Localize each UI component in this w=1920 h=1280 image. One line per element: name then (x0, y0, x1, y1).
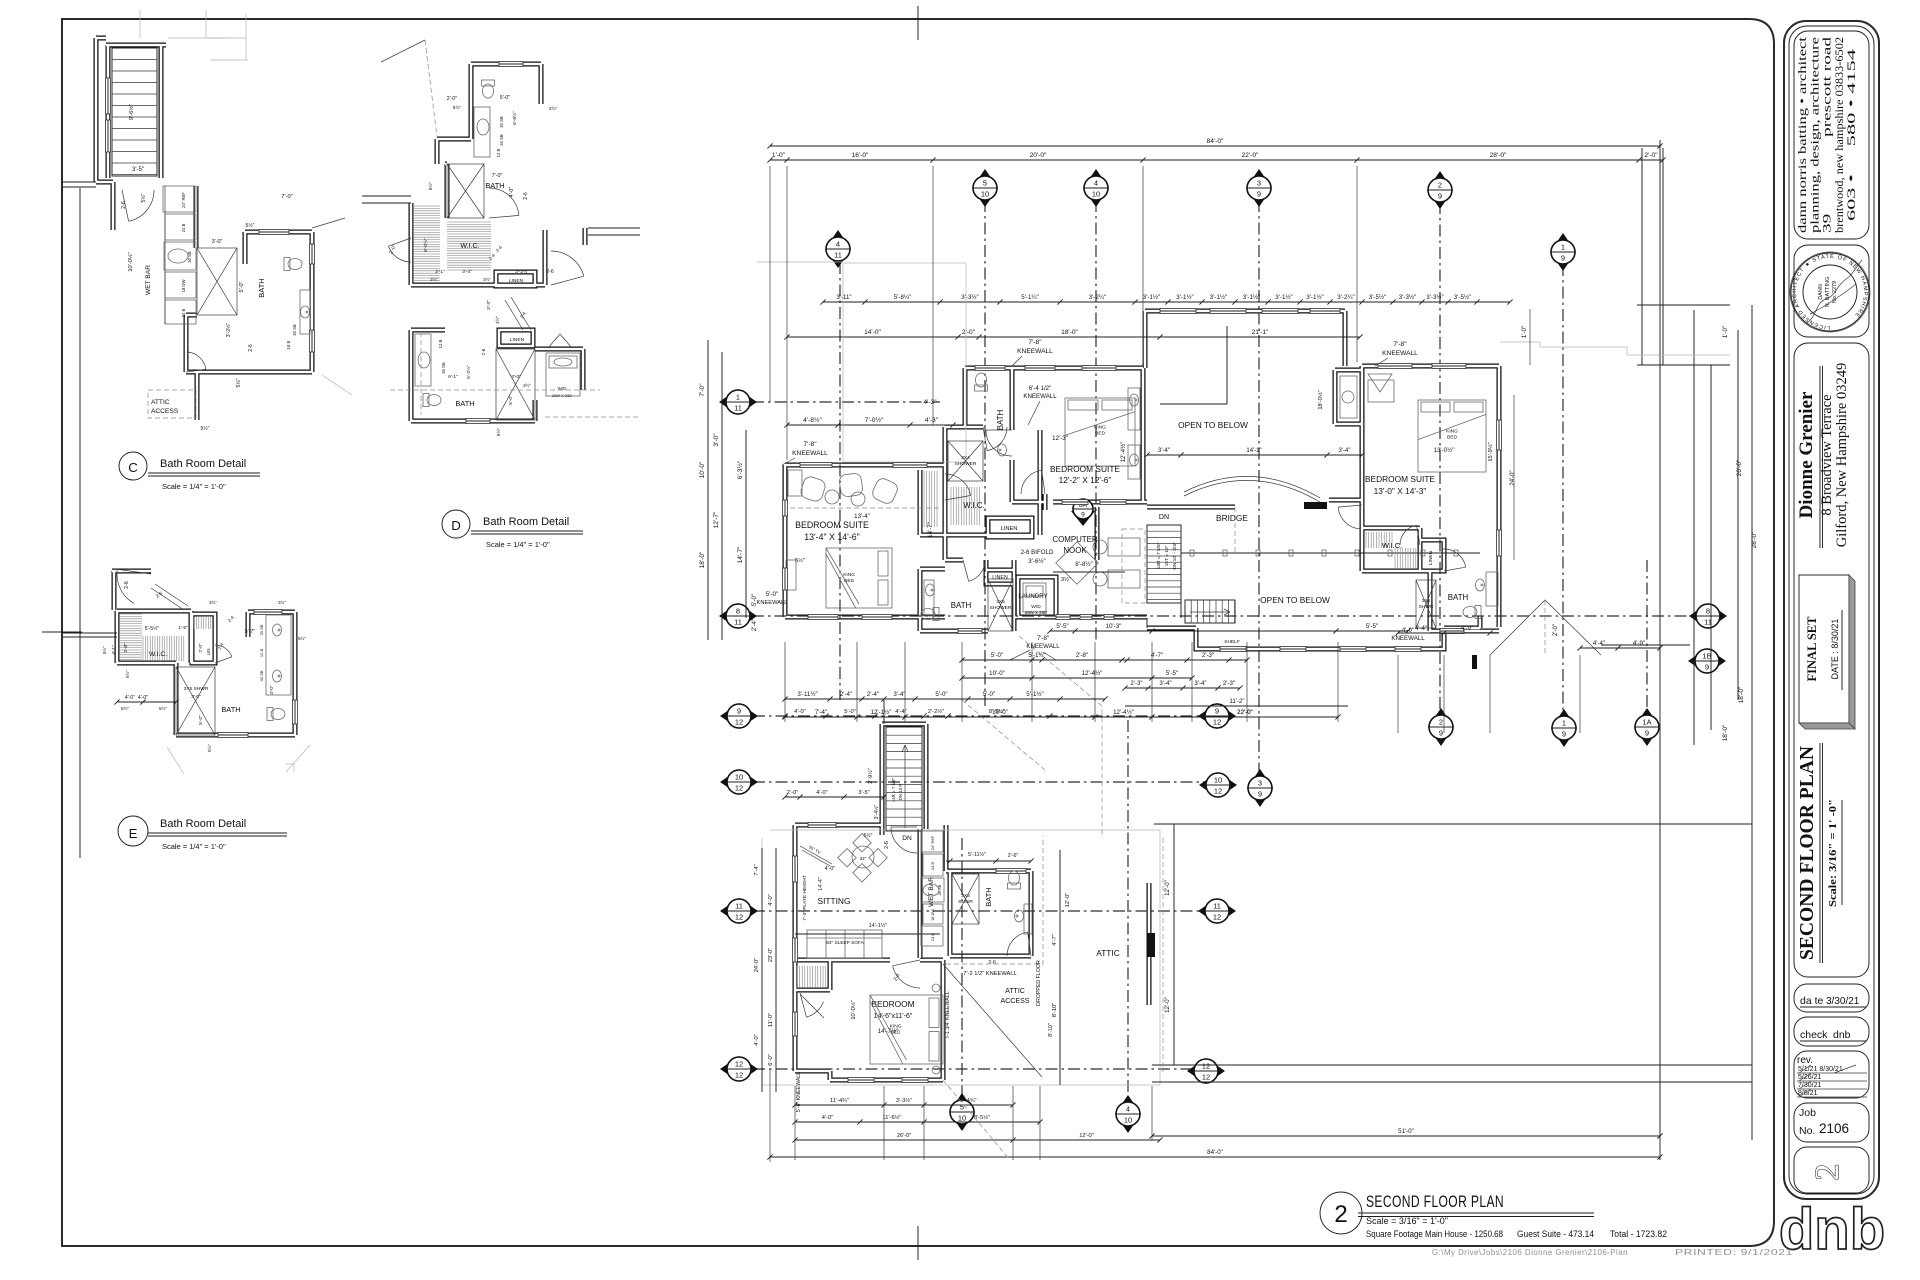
svg-text:5'-0": 5'-0" (991, 652, 1003, 659)
svg-text:14R = 7 5/8": 14R = 7 5/8" (891, 777, 896, 802)
svg-text:10: 10 (1092, 190, 1100, 199)
svg-text:51'-0": 51'-0" (1398, 1128, 1414, 1135)
right bedroom bed (1418, 400, 1486, 472)
svg-text:ACCESS: ACCESS (1001, 998, 1030, 1005)
svg-text:3'-0": 3'-0" (212, 239, 223, 245)
solid post left of right bedroom door (1304, 502, 1327, 509)
svg-text:dnb: dnb (1833, 1029, 1851, 1041)
svg-text:9: 9 (1215, 707, 1219, 716)
svg-text:28'-0": 28'-0" (1490, 152, 1507, 159)
svg-text:3½": 3½" (523, 383, 531, 388)
laundry room (1023, 583, 1046, 612)
dashed dropped floor box (1122, 529, 1145, 603)
svg-text:2-6: 2-6 (884, 841, 890, 849)
svg-text:3'-11": 3'-11" (836, 294, 851, 301)
svg-text:4'-0": 4'-0" (509, 187, 515, 197)
svg-text:1: 1 (1561, 243, 1565, 252)
svg-text:15T = 10": 15T = 10" (1164, 545, 1170, 566)
svg-text:5'-7": 5'-7" (245, 629, 255, 635)
svg-text:KNEEWALL: KNEEWALL (792, 450, 828, 457)
grid bubble 1/9 top (1550, 233, 1576, 271)
svg-text:3'-0": 3'-0" (511, 374, 521, 380)
grid bubble 2/9 bottom (1428, 708, 1454, 746)
svg-text:7'-3" PLATE HEIGHT: 7'-3" PLATE HEIGHT (802, 875, 808, 921)
svg-text:2-6: 2-6 (481, 348, 486, 355)
svg-text:18'-0": 18'-0" (699, 551, 706, 568)
round table + chairs (852, 846, 874, 868)
svg-text:6'-4 1/2": 6'-4 1/2" (1029, 385, 1052, 392)
svg-text:34 SB: 34 SB (499, 134, 504, 146)
roof diagonals lower middle (1019, 636, 1102, 838)
svg-text:Scale = 1/4" = 1'-0": Scale = 1/4" = 1'-0" (162, 842, 226, 851)
svg-text:10'-0": 10'-0" (699, 461, 706, 478)
svg-text:9: 9 (1438, 192, 1442, 201)
overall dimension 84ft top (770, 145, 1660, 147)
svg-text:7'-4": 7'-4" (754, 864, 760, 875)
window seat bay (1340, 376, 1357, 418)
detail D left closet hatch (414, 206, 440, 280)
bridge south rail (1181, 552, 1480, 554)
open floor edge (1226, 326, 1228, 404)
svg-text:3'-3": 3'-3" (486, 300, 492, 310)
svg-text:SITTING: SITTING (818, 896, 851, 906)
svg-text:12: 12 (735, 1071, 743, 1080)
svg-text:2'-9½": 2'-9½" (867, 768, 874, 783)
svg-text:Dionne Grenier: Dionne Grenier (1796, 391, 1817, 518)
dims right of guest suite (1059, 850, 1061, 1085)
svg-text:5: 5 (983, 179, 987, 188)
detail C stair enclosure (112, 48, 157, 176)
svg-text:DANN: DANN (1818, 284, 1824, 300)
svg-text:11'-6½": 11'-6½" (883, 1114, 902, 1121)
svg-text:7'-0": 7'-0" (492, 173, 503, 179)
svg-text:30 SB: 30 SB (499, 116, 504, 128)
svg-text:10'-0½": 10'-0½" (850, 1000, 857, 1019)
svg-text:30 SB: 30 SB (441, 362, 446, 374)
svg-text:2'-2½": 2'-2½" (928, 708, 944, 715)
svg-text:6'-3½": 6'-3½" (736, 460, 744, 479)
svg-text:1: 1 (736, 393, 740, 402)
svg-text:12: 12 (735, 913, 743, 922)
svg-text:BED: BED (1447, 434, 1457, 440)
detail E lin closet (194, 617, 211, 629)
svg-text:WET BAR: WET BAR (928, 877, 935, 907)
svg-text:3½": 3½" (495, 316, 500, 324)
svg-text:LINEN: LINEN (1001, 526, 1018, 532)
svg-text:1'-5": 1'-5" (178, 625, 188, 631)
svg-text:10: 10 (735, 773, 743, 782)
svg-text:13'-0" X 14'-3": 13'-0" X 14'-3" (1374, 486, 1427, 496)
svg-text:12'-0": 12'-0" (1164, 880, 1171, 896)
svg-text:3'-11½": 3'-11½" (797, 691, 817, 698)
svg-text:2-6: 2-6 (124, 581, 130, 589)
svg-text:KING: KING (843, 572, 855, 578)
svg-text:14'-0": 14'-0" (864, 329, 881, 336)
svg-text:28W X 33D: 28W X 33D (552, 393, 572, 398)
open to below upper walls (1160, 309, 1196, 314)
svg-text:32": 32" (860, 856, 867, 861)
svg-text:5'-0": 5'-0" (239, 282, 245, 293)
svg-text:7'-0": 7'-0" (281, 194, 292, 200)
svg-text:5½": 5½" (140, 193, 147, 202)
svg-text:3'-4": 3'-4" (1194, 680, 1206, 687)
bridge floor lines (1180, 560, 1182, 618)
svg-text:26'-0": 26'-0" (897, 1133, 912, 1139)
left dim column (707, 340, 709, 640)
svg-text:3'-4": 3'-4" (893, 691, 905, 698)
svg-text:5½": 5½" (124, 670, 130, 678)
svg-text:T-1 3/4' KNEEWALL: T-1 3/4' KNEEWALL (945, 991, 951, 1038)
svg-text:2'-8": 2'-8" (1076, 652, 1088, 659)
svg-text:22'-0": 22'-0" (1242, 152, 1259, 159)
svg-text:18'-0": 18'-0" (1061, 329, 1078, 336)
svg-text:2: 2 (1809, 1164, 1846, 1181)
svg-text:5'-0": 5'-0" (983, 691, 995, 698)
section marker 8A/9 (1071, 511, 1095, 526)
svg-text:BATH: BATH (221, 705, 240, 714)
svg-text:8: 8 (736, 607, 740, 616)
lower bath fixtures (921, 608, 939, 621)
svg-text:1B: 1B (1702, 652, 1711, 661)
detail E context corners (167, 747, 184, 774)
svg-text:KNEEWALL: KNEEWALL (1023, 393, 1057, 400)
svg-text:11: 11 (1213, 902, 1221, 911)
svg-text:5½": 5½" (246, 222, 255, 229)
svg-text:3/30/21: 3/30/21 (1826, 996, 1860, 1007)
svg-text:3'-3½": 3'-3½" (896, 1097, 912, 1104)
detail D upper bath walls (499, 62, 523, 67)
svg-text:WET BAR: WET BAR (145, 265, 152, 295)
svg-text:3'-5": 3'-5" (858, 790, 869, 796)
svg-text:BATH: BATH (1448, 593, 1469, 602)
svg-text:W.I.C.: W.I.C. (1382, 541, 1402, 550)
svg-text:5½": 5½" (864, 832, 873, 839)
svg-text:LIN: LIN (206, 649, 211, 656)
svg-text:5'-5": 5'-5" (1166, 670, 1178, 677)
svg-text:23'-0": 23'-0" (768, 948, 774, 963)
svg-text:5'-1½": 5'-1½" (1026, 691, 1043, 698)
extension verticals from top dims (769, 166, 771, 402)
svg-text:30 SB: 30 SB (187, 251, 192, 263)
detail D washer dryer (546, 353, 580, 396)
svg-text:5'-5": 5'-5" (1056, 623, 1068, 630)
svg-text:5½": 5½" (159, 705, 167, 711)
svg-text:18'-0": 18'-0" (1722, 724, 1729, 741)
svg-text:SHOWER: SHOWER (955, 461, 977, 467)
detail C shower (197, 248, 237, 315)
svg-text:12: 12 (1202, 1073, 1210, 1082)
stair arrow (1190, 609, 1230, 615)
svg-text:D: D (451, 518, 461, 533)
svg-text:4'-0": 4'-0" (138, 695, 148, 701)
dim row 14-2-18-21 (787, 336, 1360, 338)
row grid lines (752, 401, 940, 403)
svg-text:SHELF: SHELF (1224, 639, 1240, 645)
svg-text:check: check (1800, 1029, 1828, 1041)
bottom wall middle (1056, 615, 1070, 620)
chimney attic (1147, 933, 1155, 957)
svg-text:9: 9 (1645, 729, 1649, 738)
svg-text:7'-2 1/2" KNEEWALL: 7'-2 1/2" KNEEWALL (963, 971, 1016, 977)
guest bath (996, 869, 1026, 874)
svg-text:LINEN: LINEN (509, 278, 524, 284)
svg-text:5½": 5½" (206, 744, 212, 752)
svg-text:4'-4": 4'-4" (1415, 625, 1427, 632)
svg-text:3X5: 3X5 (1422, 598, 1431, 604)
svg-text:12 B: 12 B (496, 148, 501, 157)
svg-text:KING: KING (890, 1024, 902, 1030)
closet hatch guest (797, 966, 826, 988)
detail E bath walls (254, 610, 282, 615)
svg-text:3½": 3½" (209, 600, 217, 605)
svg-text:14'-4": 14'-4" (818, 877, 824, 891)
svg-text:12 B: 12 B (259, 649, 264, 658)
svg-text:2106: 2106 (1819, 1121, 1849, 1136)
svg-text:LINEN: LINEN (1428, 550, 1434, 565)
grid bubble 8/11 left (719, 603, 757, 629)
svg-text:Gilford, New Hampshire 03249: Gilford, New Hampshire 03249 (1834, 363, 1850, 547)
svg-text:10: 10 (981, 190, 989, 199)
extension verticals below upper house (784, 642, 786, 722)
title block outer frame (1784, 21, 1879, 1199)
svg-text:planning, design, architecture: planning, design, architecture (1809, 37, 1821, 233)
svg-text:1'-0": 1'-0" (772, 152, 786, 159)
detail D shower big (447, 164, 484, 218)
svg-text:5/26/21: 5/26/21 (1798, 1074, 1821, 1081)
svg-text:2'-0": 2'-0" (447, 96, 458, 102)
svg-text:9: 9 (1081, 512, 1085, 519)
svg-text:NOOK: NOOK (1063, 546, 1087, 555)
svg-text:SHWR: SHWR (958, 899, 973, 905)
svg-text:3'-1½": 3'-1½" (1243, 294, 1260, 301)
grid bubble 10/12 right (1199, 772, 1237, 798)
svg-text:DN 10' - 3/4": DN 10' - 3/4" (1172, 542, 1178, 570)
svg-text:C: C (128, 460, 138, 475)
svg-text:12'-4½": 12'-4½" (1113, 709, 1134, 716)
svg-text:BRIDGE: BRIDGE (1216, 513, 1248, 523)
grid bubble 11/12 right (1198, 898, 1236, 924)
svg-text:W.I.C.: W.I.C. (460, 243, 479, 250)
FINAL SET stamp box (1799, 575, 1849, 723)
svg-text:2'-4": 2'-4" (840, 691, 852, 698)
svg-text:5½": 5½" (235, 378, 242, 387)
detail D lower bath fixtures (415, 334, 431, 386)
svg-text:24" REF: 24" REF (930, 835, 935, 850)
left bedroom bed (826, 548, 892, 608)
svg-text:5'-1¼": 5'-1¼" (1021, 294, 1038, 301)
svg-text:2-6 BIFOLD: 2-6 BIFOLD (1021, 549, 1054, 556)
svg-text:8'-10": 8'-10" (1048, 1023, 1054, 1037)
svg-text:12'-7": 12'-7" (713, 511, 720, 528)
detail E context walls top (117, 569, 134, 603)
svg-text:12'-1½": 12'-1½" (871, 709, 892, 716)
grid bubble 2/9 top (1427, 171, 1453, 209)
svg-text:12'-0": 12'-0" (1164, 997, 1171, 1013)
svg-text:3'-2¼": 3'-2¼" (1337, 294, 1354, 301)
svg-text:2-6: 2-6 (248, 344, 254, 352)
right wing bottom dims (1398, 632, 1490, 634)
svg-text:7/30/21: 7/30/21 (1798, 1082, 1821, 1089)
architect info box (1794, 31, 1869, 239)
computer nook desks (1108, 538, 1140, 556)
detail D hall door right (551, 251, 584, 276)
detail C faint refs (139, 10, 141, 38)
3x4 shower (948, 441, 983, 481)
svg-text:14'-1½": 14'-1½" (869, 922, 888, 929)
svg-text:4'-9": 4'-9" (1461, 625, 1473, 632)
svg-text:4'-0": 4'-0" (794, 709, 805, 715)
svg-text:14'-7": 14'-7" (927, 522, 934, 538)
svg-text:12: 12 (1213, 718, 1221, 727)
svg-text:3X5 SHWR: 3X5 SHWR (184, 686, 209, 692)
svg-text:20'-0": 20'-0" (1030, 152, 1047, 159)
svg-text:2'-0": 2'-0" (1644, 152, 1658, 159)
svg-text:BEDROOM SUITE: BEDROOM SUITE (1365, 474, 1435, 484)
top right 2ft dim (1641, 148, 1643, 365)
svg-text:10: 10 (1214, 776, 1222, 785)
svg-text:12'-4½": 12'-4½" (1082, 670, 1103, 677)
solid post lower (1472, 655, 1477, 669)
svg-text:2'-4": 2'-4" (751, 619, 758, 631)
svg-text:4'-3": 4'-3" (923, 399, 937, 406)
stairs down (1147, 525, 1181, 603)
svg-text:3'-1½": 3'-1½" (1176, 294, 1193, 301)
grid bubble 3/9 bottom (1247, 769, 1273, 807)
extension verticals below guest (794, 1086, 796, 1160)
svg-text:84" SLEEP SOFA: 84" SLEEP SOFA (826, 940, 864, 946)
svg-text:24'-0": 24'-0" (1510, 470, 1516, 485)
bedroom door (893, 966, 920, 988)
detail D context walls (362, 195, 411, 197)
svg-text:84'-0": 84'-0" (1207, 1149, 1223, 1156)
svg-text:12'-4½": 12'-4½" (1120, 442, 1127, 463)
svg-text:1'-0": 1'-0" (1521, 326, 1528, 338)
svg-text:9: 9 (1562, 730, 1566, 739)
detail C entry door (129, 190, 154, 221)
svg-text:2-6: 2-6 (988, 960, 996, 966)
client / sheet title box (1794, 245, 1869, 337)
top dimension chain (770, 159, 1663, 161)
svg-text:3½": 3½" (549, 105, 558, 112)
svg-text:ACCESS: ACCESS (151, 408, 179, 415)
svg-text:7'-8": 7'-8" (1037, 635, 1049, 642)
svg-text:KING: KING (1446, 428, 1458, 434)
svg-text:3'-3½": 3'-3½" (1426, 294, 1443, 301)
svg-text:13'-4": 13'-4" (854, 513, 870, 520)
grid bubble 12/12 right (1187, 1058, 1225, 1084)
svg-text:30 SB: 30 SB (259, 670, 264, 681)
svg-text:12: 12 (1214, 787, 1222, 796)
svg-text:BED: BED (891, 1030, 901, 1036)
svg-text:1: 1 (1562, 719, 1566, 728)
dims above guest suite on grid row (782, 713, 787, 718)
svg-text:KNEEWALL: KNEEWALL (1017, 348, 1053, 355)
svg-text:3: 3 (1257, 179, 1261, 188)
svg-text:5'-1½": 5'-1½" (1028, 652, 1045, 659)
grid bubble 12/12 left (720, 1056, 758, 1082)
dims below upper house (962, 659, 1247, 661)
grid bubble 9/12 left (720, 703, 758, 729)
detail D door by shower (489, 188, 519, 215)
svg-text:BEDROOM SUITE: BEDROOM SUITE (795, 520, 869, 530)
svg-text:9: 9 (1561, 254, 1565, 263)
tv wall (800, 846, 832, 864)
svg-text:DN: DN (902, 835, 912, 842)
svg-text:2: 2 (1438, 181, 1442, 190)
svg-text:3'-0": 3'-0" (191, 694, 201, 700)
svg-text:4'-0": 4'-0" (768, 894, 774, 905)
svg-text:brentwood, new hampshire 03833: brentwood, new hampshire 03833-6502 (1834, 37, 1846, 233)
svg-text:14R = 7 5/8": 14R = 7 5/8" (1156, 542, 1162, 569)
svg-text:5'-0": 5'-0" (500, 95, 511, 101)
detail C top left exterior (63, 181, 96, 183)
svg-text:KNEEWALL: KNEEWALL (757, 600, 788, 606)
grid bubble 4/10 bottom (1115, 1095, 1141, 1133)
svg-text:2'-1": 2'-1" (435, 269, 445, 275)
svg-text:Bath Room Detail: Bath Room Detail (160, 818, 246, 830)
svg-text:6'-0": 6'-0" (768, 1054, 774, 1065)
door arcs (986, 430, 1012, 456)
svg-text:9: 9 (1257, 190, 1261, 199)
svg-text:10: 10 (958, 1114, 966, 1123)
svg-text:9: 9 (1258, 790, 1262, 799)
south wall open area + shelf bay (1220, 647, 1246, 652)
svg-text:8 Broadview Terrace: 8 Broadview Terrace (1819, 394, 1835, 515)
svg-text:3'-2¼": 3'-2¼" (1089, 294, 1106, 301)
svg-text:4'-0": 4'-0" (822, 1115, 833, 1121)
lower right step lines (1601, 644, 1690, 646)
svg-text:28'-0": 28'-0" (1751, 531, 1758, 548)
svg-text:7'-4": 7'-4" (815, 709, 827, 716)
dim row under open to below (1147, 454, 1362, 456)
left bedroom windows (800, 463, 832, 468)
rev box (1794, 1051, 1869, 1098)
guest dashed boundary (943, 964, 1042, 1077)
svg-text:2-6: 2-6 (121, 201, 127, 209)
svg-text:12'-2" X 12'-6": 12'-2" X 12'-6" (1059, 475, 1112, 485)
svg-text:12 B: 12 B (438, 339, 443, 348)
svg-text:No.: No. (1799, 1125, 1815, 1137)
svg-text:5'-0": 5'-0" (508, 395, 514, 405)
svg-text:18 B: 18 B (286, 340, 291, 349)
svg-text:5½": 5½" (427, 182, 434, 191)
svg-text:LINEN: LINEN (510, 337, 525, 343)
grid bubble 1A/9 bottom (1634, 708, 1660, 746)
svg-text:1A: 1A (1642, 718, 1651, 727)
svg-text:2: 2 (1439, 718, 1443, 727)
svg-text:24" REF: 24" REF (181, 192, 186, 208)
svg-text:39 prescott road: 39 prescott road (1822, 37, 1834, 233)
detail D title (442, 510, 470, 538)
svg-text:2'-3": 2'-3" (1202, 652, 1214, 659)
detail C title (119, 452, 147, 480)
svg-text:SECOND FLOOR PLAN: SECOND FLOOR PLAN (1366, 1193, 1504, 1211)
svg-text:10'-0": 10'-0" (989, 670, 1005, 677)
guest stairs treads (886, 727, 922, 831)
svg-text:3'-4½": 3'-4½" (873, 804, 880, 819)
svg-text:3'-4": 3'-4" (1339, 448, 1351, 454)
svg-text:5'-0": 5'-0" (766, 591, 778, 598)
svg-text:2'-0": 2'-0" (198, 643, 203, 652)
svg-text:4: 4 (836, 240, 840, 249)
svg-text:2'-0": 2'-0" (787, 790, 798, 796)
detail D wic hatch (447, 222, 491, 270)
svg-text:5½": 5½" (298, 636, 306, 641)
svg-text:Scale = 1/4" = 1'-0": Scale = 1/4" = 1'-0" (162, 482, 226, 491)
grid bubble 8/11 right (1689, 603, 1727, 629)
svg-text:7'-8": 7'-8" (803, 441, 817, 448)
svg-text:5'-0": 5'-0" (198, 715, 204, 725)
